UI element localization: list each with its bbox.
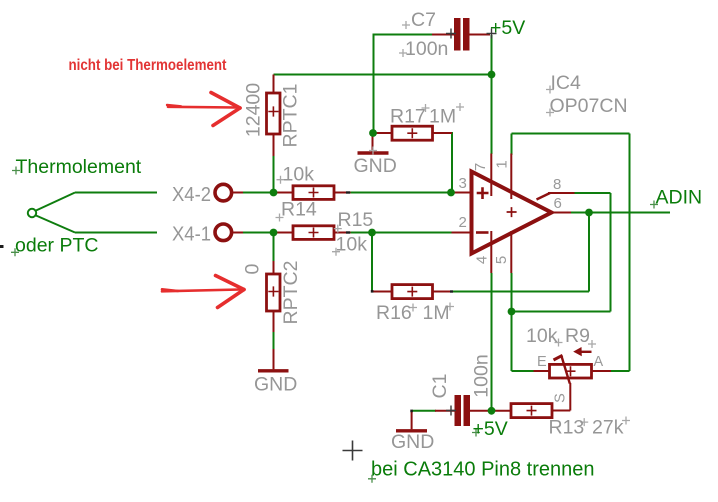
svg-text:GND: GND [354,155,397,177]
svg-text:8: 8 [553,176,561,193]
svg-text:RPTC1: RPTC1 [280,84,302,148]
svg-text:C7: C7 [411,9,436,31]
svg-text:Thermolement: Thermolement [16,156,142,178]
svg-text:X4-2: X4-2 [172,183,211,206]
svg-text:100n: 100n [470,354,492,397]
svg-text:A: A [594,354,604,370]
svg-text:nicht bei Thermoelement: nicht bei Thermoelement [69,57,227,74]
svg-text:S: S [553,393,569,403]
svg-text:GND: GND [391,431,434,453]
svg-text:GND: GND [254,374,297,396]
svg-text:C1: C1 [429,374,451,399]
svg-text:5: 5 [493,256,510,264]
svg-text:ADIN: ADIN [656,187,703,209]
svg-text:1M: 1M [423,302,450,324]
svg-text:X4-1: X4-1 [172,223,211,246]
svg-text:bei CA3140 Pin8 trennen: bei CA3140 Pin8 trennen [371,459,595,481]
svg-text:7: 7 [472,163,489,171]
svg-text:3: 3 [459,175,467,192]
svg-text:6: 6 [554,195,562,212]
svg-text:R17: R17 [390,106,426,128]
svg-text:E: E [537,354,547,370]
svg-text:R9: R9 [565,325,590,347]
svg-text:OP07CN: OP07CN [550,95,628,117]
svg-text:R13: R13 [549,417,585,439]
svg-text:4: 4 [474,256,491,264]
svg-text:1: 1 [494,160,511,168]
svg-text:IC4: IC4 [551,72,582,94]
svg-text:10k: 10k [283,164,315,186]
svg-text:1M: 1M [429,106,456,128]
svg-text:12400: 12400 [243,83,265,137]
svg-text:2: 2 [459,214,467,231]
svg-text:R14: R14 [281,199,317,221]
svg-text:10k: 10k [526,325,558,347]
svg-text:10k: 10k [336,234,368,256]
svg-text:0: 0 [242,263,264,274]
svg-text:R15: R15 [338,209,374,231]
svg-text:+5V: +5V [473,418,508,440]
svg-text:100n: 100n [405,38,448,60]
svg-text:RPTC2: RPTC2 [280,261,302,325]
svg-text:27k: 27k [592,417,624,439]
svg-text:oder PTC: oder PTC [15,235,98,257]
svg-text:R16: R16 [376,302,412,324]
svg-text:+5V: +5V [490,17,525,39]
